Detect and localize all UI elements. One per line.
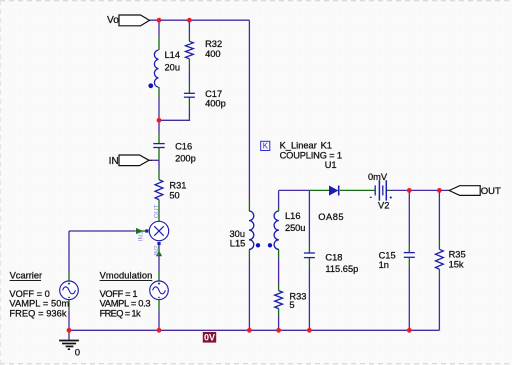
svg-text:400: 400 xyxy=(205,49,221,59)
svg-text:Vo: Vo xyxy=(107,15,119,26)
svg-text:5: 5 xyxy=(289,300,294,310)
svg-text:0: 0 xyxy=(75,347,80,358)
svg-text:IN1: IN1 xyxy=(138,231,145,242)
svg-text:L14: L14 xyxy=(165,50,181,60)
svg-text:C15: C15 xyxy=(379,250,396,260)
svg-text:Vcarrier: Vcarrier xyxy=(10,271,43,281)
svg-text:K: K xyxy=(263,142,269,151)
svg-text:VAMPL = 50m: VAMPL = 50m xyxy=(9,298,69,308)
svg-text:0mV: 0mV xyxy=(368,172,388,182)
svg-text:1n: 1n xyxy=(379,260,389,270)
svg-text:L16: L16 xyxy=(285,211,301,221)
svg-text:FREQ = 1k: FREQ = 1k xyxy=(100,308,141,318)
svg-text:IN2: IN2 xyxy=(153,245,160,256)
svg-text:250u: 250u xyxy=(285,223,305,233)
svg-text:R35: R35 xyxy=(449,250,466,260)
svg-text:U1: U1 xyxy=(325,160,337,170)
svg-text:Vmodulation: Vmodulation xyxy=(100,271,153,281)
svg-text:R32: R32 xyxy=(205,39,222,49)
svg-text:C18: C18 xyxy=(325,252,342,262)
svg-text:FREQ = 936k: FREQ = 936k xyxy=(9,308,66,318)
svg-text:30u: 30u xyxy=(230,229,246,239)
svg-text:400p: 400p xyxy=(205,98,226,108)
svg-text:50: 50 xyxy=(169,190,179,200)
svg-text:0V: 0V xyxy=(204,333,215,343)
svg-text:V2: V2 xyxy=(378,200,389,210)
svg-text:K_Linear: K_Linear xyxy=(280,140,317,150)
svg-text:K1: K1 xyxy=(321,140,332,150)
svg-text:VAMPL = 0.3: VAMPL = 0.3 xyxy=(100,298,151,308)
svg-text:115.65p: 115.65p xyxy=(325,264,358,274)
svg-text:OUT: OUT xyxy=(481,186,501,197)
svg-text:20u: 20u xyxy=(165,62,181,72)
svg-text:R31: R31 xyxy=(169,181,186,191)
svg-text:C16: C16 xyxy=(175,142,192,152)
svg-text:IN: IN xyxy=(109,156,119,167)
svg-text:OUT: OUT xyxy=(153,204,160,218)
svg-text:L15: L15 xyxy=(230,239,246,249)
svg-text:200p: 200p xyxy=(175,154,196,164)
svg-text:15k: 15k xyxy=(449,259,464,269)
svg-text:OA85: OA85 xyxy=(318,212,343,222)
